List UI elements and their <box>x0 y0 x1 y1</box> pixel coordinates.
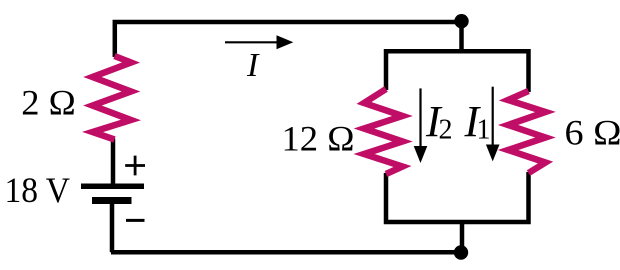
svg-text:2: 2 <box>439 115 453 146</box>
svg-text:2 Ω: 2 Ω <box>21 83 75 123</box>
svg-text:12 Ω: 12 Ω <box>282 119 355 159</box>
svg-text:6 Ω: 6 Ω <box>565 113 620 153</box>
svg-text:I: I <box>246 47 260 84</box>
svg-text:1: 1 <box>477 115 491 146</box>
svg-text:18 V: 18 V <box>5 170 71 210</box>
